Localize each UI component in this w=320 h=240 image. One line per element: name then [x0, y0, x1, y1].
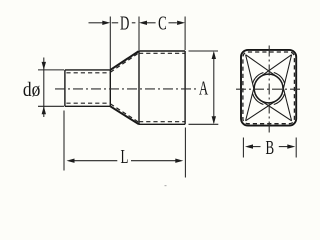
svg-text:dø: dø [23, 79, 40, 102]
svg-text:B: B [265, 136, 274, 159]
svg-text:A: A [199, 77, 209, 100]
svg-text:D: D [120, 11, 129, 34]
svg-text:C: C [158, 12, 167, 35]
svg-text:L: L [120, 145, 128, 168]
